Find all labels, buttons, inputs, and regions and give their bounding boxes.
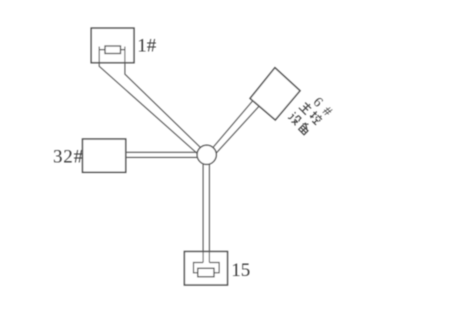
wire: hub to box 6# upper (207, 100, 254, 155)
terminator resistor leads in box 1# (99, 49, 125, 51)
svg-text:15: 15 (231, 260, 250, 281)
station box 15 (bottom) (184, 252, 227, 286)
station box 32# (left) (83, 139, 126, 172)
glyph 设 (288, 111, 302, 125)
wire: box 1# right lead down then diagonal to hub (125, 47, 206, 153)
terminator bracket leads in box 15 (194, 263, 220, 273)
hub node circle (197, 145, 216, 164)
wire: box 1# left lead down then diagonal to hub (99, 47, 203, 159)
station box 6# (rotated, top-right) (250, 68, 300, 120)
wire pair: box 32# to hub (horizontal) (126, 152, 207, 157)
station box 1# (top-left) (91, 28, 134, 63)
svg-text:32#: 32# (53, 146, 84, 167)
terminator resistor body in box 15 (198, 268, 214, 277)
svg-text:#: # (319, 104, 335, 120)
wire: hub to box 6# lower (210, 106, 259, 160)
rotated label block: 6# 主控设备 (288, 90, 335, 137)
terminator resistor body in box 1# (105, 46, 121, 54)
svg-text:6: 6 (310, 95, 326, 111)
glyph 备 (298, 121, 312, 135)
svg-text:1#: 1# (137, 35, 157, 56)
wire pair: hub to box 15 (vertical) (203, 154, 209, 263)
glyph 主 (299, 100, 313, 114)
glyph 控 (308, 110, 323, 125)
